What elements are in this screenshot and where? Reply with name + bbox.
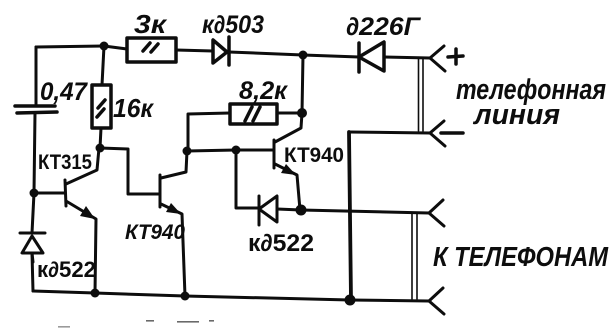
wire 8.2k right leg [277, 112, 302, 115]
svg-text:КТ940: КТ940 [125, 221, 185, 244]
wire 3k right stub [176, 50, 213, 51]
wire 3k left stub [104, 46, 127, 49]
wire left vertical bottom [32, 253, 33, 291]
minus sign [441, 131, 463, 135]
transistor Q1 КТ315 [65, 148, 99, 293]
node F junction dot [296, 205, 307, 216]
node H junction dot [345, 295, 356, 306]
wire 8.2k left leg [188, 113, 230, 151]
diode VD кд503 [213, 37, 229, 65]
terminal phones lower fork [429, 288, 444, 314]
svg-text:∂226Г: ∂226Г [346, 13, 422, 41]
resistor R 8,2к [230, 104, 277, 124]
diode VD кд522 left [20, 233, 45, 262]
svg-text:3к: 3к [134, 9, 168, 39]
svg-text:К ТЕЛЕФОНАМ: К ТЕЛЕФОНАМ [433, 241, 609, 272]
transistor Q2 КТ940 middle [160, 151, 187, 296]
wire bottom rail [33, 291, 429, 301]
node KT315 emitter bottom dot [91, 289, 100, 298]
terminal phones upper fork [429, 200, 444, 226]
node A junction dot [30, 189, 39, 198]
node E junction dot [297, 108, 307, 118]
node C junction dot [183, 147, 192, 156]
wire node B to middle base [100, 148, 160, 194]
resistor R 16к [92, 85, 111, 128]
wire left vertical mid [34, 113, 35, 193]
svg-text:к∂522: к∂522 [37, 257, 96, 282]
node G junction dot [299, 51, 308, 60]
node B junction dot [96, 144, 105, 153]
svg-text:линия: линия [472, 99, 560, 131]
svg-text:КТ315: КТ315 [38, 151, 92, 174]
svg-text:0,47: 0,47 [40, 78, 88, 106]
wire 16k branch from top node [102, 46, 104, 85]
transistor Q3 КТ940 right [274, 113, 302, 210]
node Q2 emitter bottom dot [181, 292, 190, 301]
diode VD кд522 right [259, 196, 301, 225]
wire left vertical upper [35, 47, 38, 104]
wire node C to right base [187, 150, 273, 151]
svg-text:16к: 16к [113, 93, 155, 123]
cable pair lines top [419, 59, 424, 131]
plus sign [448, 49, 463, 64]
wire D226 to plus terminal [384, 57, 430, 58]
wire base KT315 [34, 192, 65, 195]
wire node G to D226 [303, 55, 359, 57]
wire node D down [236, 150, 259, 208]
resistor R 3к [127, 38, 176, 62]
svg-text:8,2к: 8,2к [239, 77, 288, 105]
svg-text:к∂503: к∂503 [202, 11, 264, 39]
svg-text:КТ940: КТ940 [284, 144, 344, 167]
cable pair lines bottom [412, 214, 417, 299]
capacitor C1 0,47 [15, 106, 57, 113]
node top junction dot [100, 42, 109, 51]
node D junction dot [232, 146, 241, 155]
wire node G down to node E [302, 55, 303, 113]
wire top-left horizontal [36, 46, 104, 47]
scan speckles [58, 320, 214, 328]
diode VD Д226Г [359, 42, 384, 72]
terminal minus fork [430, 121, 445, 146]
wire left vertical lower [32, 193, 34, 233]
terminal plus fork [430, 46, 445, 71]
wire vertical from minus corner to bottom rail [349, 132, 351, 300]
wire 16k bottom [100, 128, 101, 148]
wire node F to phones terminal [301, 210, 429, 213]
svg-text:к∂522: к∂522 [248, 230, 314, 257]
wire minus terminal horizontal [349, 132, 430, 133]
wire kd503 to node G [229, 52, 303, 55]
